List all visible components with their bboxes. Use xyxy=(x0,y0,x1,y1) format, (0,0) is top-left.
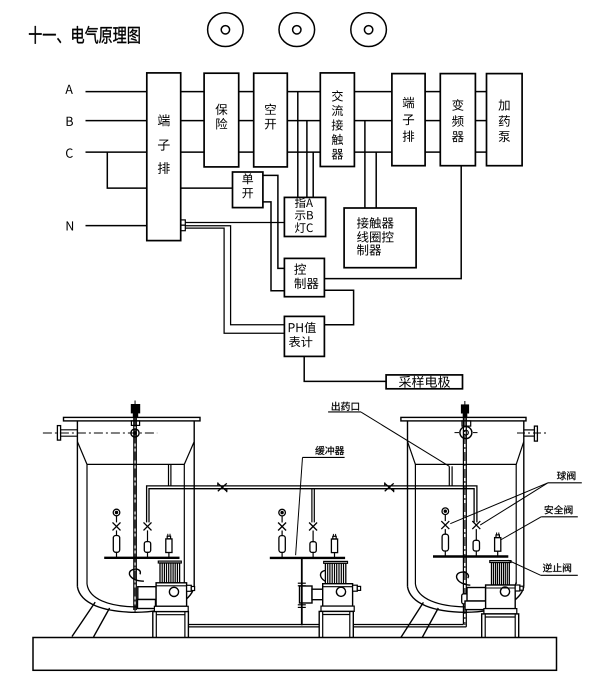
right tank agitator shaft / drop pipe xyxy=(462,417,464,624)
terminal plug upper on 端子排 xyxy=(181,220,186,225)
leader 缓冲器 xyxy=(296,457,303,555)
PH meter box PH值表计 xyxy=(284,316,324,356)
wire phase C segment xyxy=(287,151,320,153)
wire phase B segment xyxy=(239,120,254,122)
wire phase B in xyxy=(86,120,147,122)
left tank inner wall left xyxy=(86,464,88,584)
left tank agitator motor xyxy=(131,405,139,413)
wire phase A in xyxy=(86,91,147,93)
leader 安全阀 xyxy=(501,517,542,540)
wire phase A segment xyxy=(354,91,392,93)
middle pump adapter plate xyxy=(321,606,354,611)
right tank gland bearing circle xyxy=(460,427,472,439)
inverter box 变频器 xyxy=(440,74,475,166)
indicator lamp circle L1 xyxy=(208,13,244,47)
left tank outlet stub xyxy=(168,464,170,486)
right tank suction safety valve (安全阀) xyxy=(495,538,501,552)
left tank dished bottom outer xyxy=(77,587,194,613)
left tank suction safety valve (安全阀) xyxy=(166,539,172,553)
breaker box 空开 xyxy=(254,73,288,167)
right tank agitator motor xyxy=(462,405,469,413)
left tank suction manifold bar xyxy=(104,557,179,559)
dosing pump box 加药泵 xyxy=(487,74,523,166)
middle skid ball valve with gauge (球阀) xyxy=(279,509,286,516)
middle pump inlet port circle xyxy=(336,587,345,596)
right tank suction manifold bar xyxy=(433,555,508,557)
sampling electrode box 采样电极 xyxy=(386,375,462,389)
label 缓冲器 xyxy=(315,446,324,455)
wire phase B segment xyxy=(475,120,486,122)
wire PH meter to sampling electrode xyxy=(304,356,386,381)
wire 单开 to controller (upper) xyxy=(263,175,285,268)
base manifold pipe xyxy=(189,624,464,626)
right tank inner wall left xyxy=(414,464,416,584)
right pump motor top plate xyxy=(490,561,511,563)
wire phase B segment xyxy=(354,120,392,122)
left tank outer wall left xyxy=(76,421,78,587)
wire phase B segment xyxy=(181,120,204,122)
middle pump suction block 1 xyxy=(300,586,313,603)
left tank agitator shaft xyxy=(133,417,135,610)
terminal block box 端子排 (left) xyxy=(147,73,181,241)
left tank leg xyxy=(72,602,95,636)
left tank outer wall right xyxy=(193,421,195,587)
phase label B xyxy=(67,117,73,126)
left pump body xyxy=(156,583,187,607)
indicator lamp circle L2 xyxy=(279,13,315,47)
left tank suction ball valve with gauge (球阀) xyxy=(113,509,120,516)
wire tap C down to lamp box xyxy=(312,152,314,197)
wire neutral N in xyxy=(86,225,147,227)
right tank shaft centerline xyxy=(464,401,466,625)
right tank outer wall left xyxy=(407,421,409,587)
pipe union/check 2 xyxy=(385,483,390,491)
wire tap C down to coil controller xyxy=(375,152,377,208)
middle pump motor top plate xyxy=(324,561,348,563)
middle pump motor (finned) xyxy=(325,563,345,583)
wire phase C segment xyxy=(475,151,486,153)
middle pump suction block 2 xyxy=(312,589,323,600)
left tank lid xyxy=(64,417,201,421)
left tank gland rect xyxy=(131,421,139,426)
right tank axis stub centerline xyxy=(517,432,547,434)
wire tap A down to lamp box xyxy=(297,92,299,198)
phase label A xyxy=(65,85,73,94)
contactor coil controller box 接触器线圈控制器 xyxy=(344,208,416,268)
wire phase B segment xyxy=(287,120,320,122)
terminal plug lower on 端子排 xyxy=(181,225,186,231)
right tank outer wall right xyxy=(523,421,525,587)
leader 逆止阀 xyxy=(508,560,541,575)
right tank liquid level line xyxy=(415,463,516,465)
middle skid safety valve (安全阀) xyxy=(331,539,337,553)
left tank taper left xyxy=(77,442,87,465)
left tank gland bearing circle xyxy=(131,429,139,437)
wire tap B down to coil controller xyxy=(364,121,366,208)
wire phase A segment xyxy=(181,91,204,93)
wire controller to inverter xyxy=(324,166,461,279)
left pump discharge nub xyxy=(187,585,192,591)
right pump suction block 2 xyxy=(465,601,487,610)
left pump motor (finned) xyxy=(160,563,180,583)
left pump motor top plate xyxy=(158,561,181,563)
right tank taper right xyxy=(516,442,524,465)
wire phase A segment xyxy=(287,91,320,93)
left pump inlet port circle xyxy=(169,587,178,596)
left tank liquid level line xyxy=(87,463,184,465)
pipe union/check 1 xyxy=(218,483,223,491)
left pump suction hook pipe xyxy=(129,569,143,581)
wire tap B down to lamp box xyxy=(306,121,308,198)
title 十一、电气原理图 xyxy=(29,26,42,44)
wire C branch down to terminal block xyxy=(107,152,147,188)
left tank side nozzle flange xyxy=(57,426,60,441)
wire plug to lamp box xyxy=(185,222,284,224)
wire phase C segment xyxy=(181,151,204,153)
left pump pedestal xyxy=(153,612,189,638)
left tank dished bottom inner xyxy=(87,582,184,607)
leader 出药口 xyxy=(361,412,449,466)
right pump discharge nub xyxy=(515,585,520,591)
wire controller to PH meter xyxy=(324,290,353,325)
right tank dished bottom outer xyxy=(408,587,524,613)
wire phase A segment xyxy=(475,91,486,93)
right pump suction hook pipe xyxy=(457,572,471,585)
wire phase C segment xyxy=(354,151,392,153)
right pump inlet port circle xyxy=(500,587,509,596)
indicator lamps box 指A示B灯C xyxy=(284,197,325,236)
neutral label N xyxy=(67,221,74,230)
left tank axis centerline xyxy=(43,432,157,434)
label 球阀 xyxy=(557,471,566,480)
right riser coupling capsule xyxy=(462,594,468,604)
middle skid manifold bar xyxy=(270,557,345,559)
leader 球阀 to left ball valve xyxy=(450,483,548,524)
wire phase B segment xyxy=(425,120,440,122)
switch box 单开 xyxy=(233,172,263,208)
wire phase C segment xyxy=(425,151,440,153)
wire plug to PH meter (inner) xyxy=(185,226,284,325)
wire 单开 to controller (lower) xyxy=(263,202,285,291)
fuse box 保险 xyxy=(204,73,239,167)
right tank dished bottom inner xyxy=(415,582,516,607)
right tank suction ball valve on riser (球阀) xyxy=(472,521,480,529)
left tank taper right xyxy=(184,442,194,465)
left tank suction ball valve on riser (球阀) xyxy=(144,522,152,530)
right pump motor (finned) xyxy=(492,563,510,586)
right tank side nozzle flange xyxy=(534,426,537,441)
right tank inner wall right xyxy=(515,464,517,584)
leader 球阀 to right ball valve xyxy=(480,483,548,525)
wire plug to PH meter (outer) xyxy=(185,228,284,333)
left tank inner wall right xyxy=(183,464,185,584)
AC contactor box 交流接触器 xyxy=(320,73,354,167)
right pump suction block 1 xyxy=(467,588,486,602)
middle skid drop riser xyxy=(301,558,303,625)
wire phase C in xyxy=(86,151,147,153)
wire phase C segment xyxy=(239,151,254,153)
right tank leg xyxy=(401,602,424,638)
right pump adapter plate xyxy=(484,609,517,614)
wire terminal block to 单开 xyxy=(181,187,233,189)
wire phase A segment xyxy=(239,91,254,93)
right pump pedestal xyxy=(482,614,519,638)
transfer pipe bottom line xyxy=(149,489,474,523)
right pump body xyxy=(486,585,516,609)
left tank shaft centerline xyxy=(134,401,136,613)
base slab xyxy=(33,638,557,671)
right tank gland rect xyxy=(462,421,471,426)
right tank dip tube 出药口 xyxy=(448,466,450,486)
middle pump discharge nub xyxy=(353,585,358,591)
indicator lamp circle L3 xyxy=(351,13,387,47)
middle pump suction hook pipe xyxy=(321,570,334,583)
middle pump body xyxy=(323,584,353,606)
right tank taper left xyxy=(408,442,416,465)
left pump adapter plate xyxy=(154,606,188,611)
transfer pipe top line xyxy=(147,486,477,523)
label 逆止阀 xyxy=(543,563,552,572)
wire phase A segment xyxy=(425,91,440,93)
middle skid ball valve on riser (球阀) xyxy=(309,523,317,531)
label 出药口 xyxy=(332,402,340,411)
middle skid feed riser from pipe xyxy=(311,489,313,523)
left pump suction block 1 xyxy=(138,587,156,600)
middle pump pedestal xyxy=(319,611,353,638)
terminal block box 端子排 (right) xyxy=(392,74,425,166)
right tank suction ball valve with gauge (球阀) xyxy=(442,508,449,515)
label 安全阀 xyxy=(545,505,553,514)
phase label C xyxy=(66,148,73,157)
controller box 控制器 xyxy=(284,258,324,296)
left pump suction block 2 xyxy=(138,600,156,609)
right tank lid xyxy=(401,417,526,421)
